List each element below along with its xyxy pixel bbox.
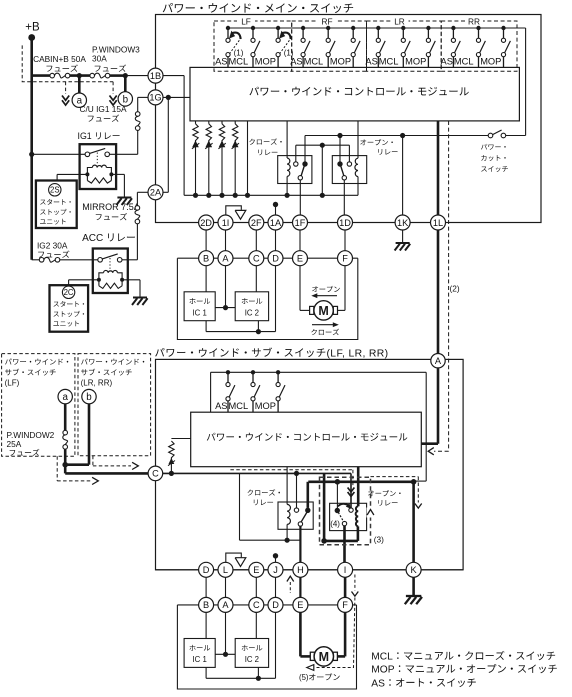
svg-text:30A: 30A <box>92 54 107 64</box>
svg-text:2F: 2F <box>251 218 262 228</box>
svg-text:AS: AS <box>290 56 302 66</box>
svg-text:MOP: MOP <box>480 56 501 66</box>
svg-text:AS: AS <box>371 678 385 689</box>
svg-text:LR: LR <box>394 17 405 27</box>
svg-text:A: A <box>222 254 229 264</box>
svg-text:MIRROR 7.5A: MIRROR 7.5A <box>82 202 140 212</box>
svg-text:+B: +B <box>25 22 40 34</box>
svg-text:E: E <box>253 565 259 575</box>
svg-text:AS: AS <box>441 56 453 66</box>
svg-text:2S: 2S <box>50 186 60 195</box>
svg-text:K: K <box>411 565 418 575</box>
svg-text:L: L <box>223 565 228 575</box>
svg-text:C/U IG1 15A: C/U IG1 15A <box>80 104 128 114</box>
svg-text:CABIN+B 50A: CABIN+B 50A <box>33 54 86 64</box>
svg-text:1K: 1K <box>397 218 409 228</box>
svg-text:MOP: MOP <box>330 56 351 66</box>
svg-text:(LR, RR): (LR, RR) <box>81 378 113 387</box>
svg-text:1G: 1G <box>149 93 161 103</box>
svg-text:(1): (1) <box>234 48 244 57</box>
svg-text:M: M <box>319 650 329 664</box>
svg-text:B: B <box>203 600 209 610</box>
svg-text:AS: AS <box>215 401 227 411</box>
svg-text:MCL: MCL <box>229 56 249 66</box>
svg-text:MCL: MCL <box>454 56 474 66</box>
svg-text:A: A <box>435 356 442 366</box>
svg-text:25A: 25A <box>7 439 22 449</box>
svg-text:MCL: MCL <box>371 652 393 663</box>
svg-text:(2): (2) <box>450 284 460 294</box>
svg-text:MOP: MOP <box>255 401 276 411</box>
svg-text:(1): (1) <box>284 48 294 57</box>
svg-text:I: I <box>344 565 347 575</box>
svg-text:(3): (3) <box>374 535 384 545</box>
svg-text:1I: 1I <box>222 218 230 228</box>
svg-text:MOP: MOP <box>371 665 394 676</box>
svg-text:(LF): (LF) <box>5 378 20 387</box>
svg-text:MOP: MOP <box>405 56 426 66</box>
svg-text:C: C <box>152 469 159 479</box>
svg-text:1A: 1A <box>270 218 282 228</box>
svg-text:M: M <box>318 304 328 318</box>
svg-text:IG1: IG1 <box>78 131 92 141</box>
svg-text:2D: 2D <box>200 218 212 228</box>
svg-text:IG2 30A: IG2 30A <box>37 241 68 251</box>
svg-text:RF: RF <box>322 17 333 27</box>
svg-text:b: b <box>86 392 92 403</box>
svg-text:D: D <box>272 600 279 610</box>
svg-text:1L: 1L <box>433 218 443 228</box>
svg-text:E: E <box>297 600 303 610</box>
svg-text:F: F <box>342 254 348 264</box>
svg-text:2A: 2A <box>150 188 162 198</box>
svg-text:(LF, LR, RR): (LF, LR, RR) <box>327 348 389 359</box>
svg-text:B: B <box>203 254 209 264</box>
svg-text:IC 2: IC 2 <box>245 655 259 664</box>
svg-text:H: H <box>297 565 304 575</box>
svg-text:2C: 2C <box>64 288 74 297</box>
svg-text:IC 1: IC 1 <box>193 308 207 317</box>
svg-text:(5): (5) <box>299 673 309 682</box>
svg-text:MCL: MCL <box>304 56 324 66</box>
svg-text:(4): (4) <box>330 520 340 529</box>
svg-text:LF: LF <box>241 17 251 27</box>
svg-text:J: J <box>273 565 278 575</box>
svg-text:ACC: ACC <box>82 233 103 244</box>
svg-text:IC 1: IC 1 <box>193 655 207 664</box>
svg-text:IC 2: IC 2 <box>245 308 259 317</box>
svg-text:A: A <box>222 600 229 610</box>
svg-text:a: a <box>63 392 69 403</box>
svg-text:D: D <box>272 254 279 264</box>
svg-text:MOP: MOP <box>255 56 276 66</box>
svg-text:C: C <box>253 600 260 610</box>
svg-text:1D: 1D <box>339 218 351 228</box>
svg-text:1F: 1F <box>295 218 306 228</box>
svg-text:MCL: MCL <box>229 401 249 411</box>
svg-text:F: F <box>342 600 348 610</box>
svg-text:RR: RR <box>468 17 480 27</box>
svg-text:D: D <box>203 565 210 575</box>
svg-text:AS: AS <box>365 56 377 66</box>
svg-text:C: C <box>253 254 260 264</box>
svg-text:AS: AS <box>215 56 227 66</box>
svg-text:1B: 1B <box>150 71 161 81</box>
svg-text:E: E <box>297 254 303 264</box>
svg-text:MCL: MCL <box>379 56 399 66</box>
